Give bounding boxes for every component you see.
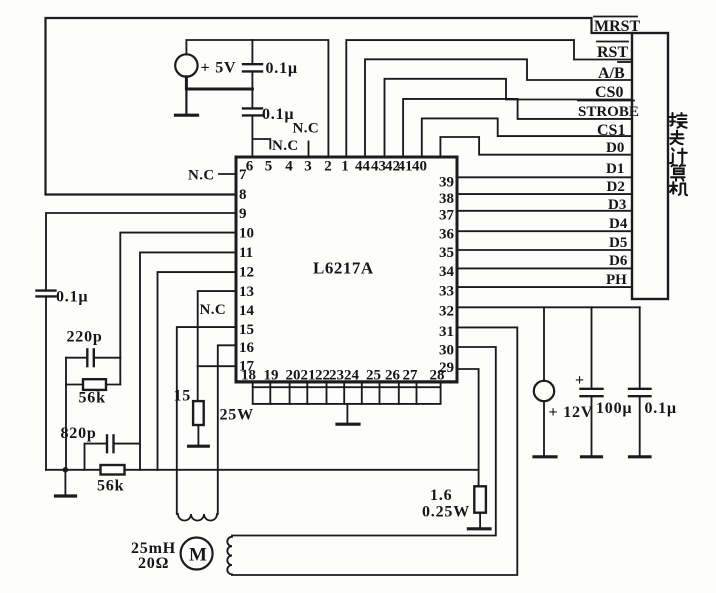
ground below 0.1u right: [630, 455, 651, 458]
U1 pin number 43: [371, 159, 386, 175]
power source +5V: [175, 54, 236, 76]
U1 pin number 4: [285, 159, 293, 175]
svg-text:24: 24: [344, 368, 360, 384]
ground below U1 bottom strip: [337, 404, 359, 424]
svg-text:820p: 820p: [61, 425, 97, 442]
svg-text:D0: D0: [606, 140, 624, 156]
inductor motor winding 1: [178, 514, 217, 521]
wire D1 net: pin 39: [458, 176, 632, 178]
U1 pin number 19: [264, 368, 279, 384]
label STROBE: [578, 101, 639, 121]
label N.C pin 14: [200, 302, 227, 318]
svg-text:D1: D1: [606, 161, 624, 177]
wire D0 net: pin 40: [440, 137, 632, 157]
ground below +12V: [534, 401, 556, 457]
svg-text:D4: D4: [609, 216, 628, 232]
svg-text:23: 23: [329, 368, 344, 384]
U1 pin number 40: [412, 159, 427, 175]
label PH: [606, 272, 627, 288]
wire pin 29 net to 1.6 ohm: [458, 369, 479, 486]
ground below 15 ohm: [189, 425, 209, 446]
label N.C pin 7: [188, 168, 236, 184]
U1 pin number 12: [239, 265, 254, 281]
U1 pin number 2: [324, 159, 332, 175]
label N.C pin 5: [272, 138, 299, 154]
svg-text:43: 43: [371, 159, 386, 175]
U1 pin number 21: [301, 368, 316, 384]
svg-text:15: 15: [174, 388, 192, 405]
label A/B: [598, 62, 630, 82]
capacitor 0.1u C1: [243, 40, 298, 89]
svg-text:41: 41: [398, 159, 413, 175]
svg-text:8: 8: [239, 187, 247, 203]
svg-text:STROBE: STROBE: [578, 104, 639, 120]
svg-text:20Ω: 20Ω: [138, 555, 169, 572]
svg-text:56k: 56k: [97, 478, 124, 495]
svg-text:1.6: 1.6: [430, 487, 452, 504]
wire A/B net: pin 44: [365, 59, 632, 157]
label CS1: [597, 122, 625, 139]
wire pin 9 net: [46, 213, 236, 290]
connector box to computer: [632, 33, 668, 299]
svg-text:11: 11: [239, 245, 253, 261]
svg-text:14: 14: [239, 303, 255, 319]
svg-text:L6217A: L6217A: [313, 259, 374, 278]
IC U1 L6217A body: [236, 157, 457, 382]
wire +5V return to C1/C2 node: [186, 77, 252, 89]
svg-text:22: 22: [315, 368, 330, 384]
capacitor 0.1u C2: [243, 89, 294, 157]
motor M: [181, 538, 213, 570]
wire D4 net: pin 36: [458, 230, 632, 232]
wire pin 17 net: [198, 365, 236, 367]
U1 pin number 39: [439, 175, 454, 191]
U1 pin number 24: [344, 368, 360, 384]
svg-text:RST: RST: [597, 44, 628, 61]
label 25mH 20 ohm: [131, 540, 176, 572]
svg-text:220p: 220p: [67, 329, 103, 346]
ground below 100u: [582, 455, 602, 458]
wire pin 16 net to motor winding 1 right: [218, 345, 236, 514]
wire pin 15 net to motor winding 1 left: [177, 327, 236, 514]
U1 pin number 23: [329, 368, 344, 384]
U1 pin number 32: [439, 304, 454, 320]
capacitor 220p: [66, 329, 120, 367]
svg-text:18: 18: [241, 368, 256, 384]
svg-text:20: 20: [286, 368, 301, 384]
svg-text:31: 31: [439, 324, 454, 340]
svg-text:33: 33: [439, 284, 454, 300]
ground below 1.6 ohm: [468, 513, 490, 529]
svg-text:44: 44: [355, 159, 371, 175]
U1 pin number 14: [239, 303, 255, 319]
svg-text:PH: PH: [606, 272, 627, 288]
svg-text:+ 5V: + 5V: [201, 60, 237, 77]
svg-text:40: 40: [412, 159, 427, 175]
U1 pin number 28: [430, 368, 445, 384]
label D3: [608, 197, 626, 213]
svg-text:0.25W: 0.25W: [422, 504, 470, 521]
svg-text:7: 7: [239, 167, 247, 183]
capacitor 0.1u C3 left: [37, 289, 89, 470]
U1 pin number 37: [439, 208, 455, 224]
svg-text:13: 13: [239, 284, 254, 300]
U1 pin number 41: [398, 159, 413, 175]
svg-text:D2: D2: [607, 179, 625, 195]
inductor motor winding 2: [227, 537, 232, 575]
U1 pin number 6: [246, 159, 254, 175]
label D5: [609, 235, 627, 251]
svg-text:0.1µ: 0.1µ: [262, 106, 294, 123]
ground rail at bottom left: [46, 469, 479, 471]
U1 pin number 3: [304, 159, 312, 175]
wire CS1 net: pin 41: [422, 118, 632, 157]
U1 pin number 42: [385, 159, 400, 175]
U1 pin number 17: [239, 359, 255, 375]
wire pin 12 net: [158, 272, 237, 470]
svg-text:6: 6: [246, 159, 254, 175]
svg-text:39: 39: [439, 175, 454, 191]
U1 pin number 30: [439, 343, 454, 359]
wire N.C stub pin 5: [253, 139, 270, 149]
label MRST: [594, 17, 641, 36]
wire D6 net: pin 34: [458, 267, 632, 269]
U1 pin number 26: [385, 368, 401, 384]
svg-text:N.C: N.C: [272, 138, 299, 154]
resistor 1.6 ohm 0.25W: [422, 486, 486, 520]
svg-text:2: 2: [324, 159, 332, 175]
U1 pin number 35: [439, 245, 454, 261]
svg-text:0.1µ: 0.1µ: [266, 60, 298, 77]
svg-text:+: +: [575, 372, 585, 389]
resistor 15 ohm 25W: [174, 388, 254, 426]
svg-text:N.C: N.C: [200, 302, 227, 318]
svg-text:+ 12V: + 12V: [549, 404, 594, 421]
U1 pin number 25: [366, 368, 381, 384]
wire pin 11 net: [140, 252, 236, 469]
power source +12V: [534, 307, 593, 421]
svg-text:36: 36: [439, 227, 455, 243]
U1 pin number 38: [439, 191, 454, 207]
svg-text:D3: D3: [608, 197, 626, 213]
svg-text:3: 3: [304, 159, 312, 175]
wire STROBE net: pin 42: [403, 99, 632, 157]
wire D2 net: pin 38: [458, 193, 632, 195]
junction node dot: [63, 467, 69, 473]
U1 pin number 1: [341, 159, 349, 175]
wire pin 10 net: [120, 233, 236, 385]
U1 pin number 10: [239, 226, 254, 242]
U1 pin number 15: [239, 322, 254, 338]
capacitor 0.1u right: [629, 307, 677, 455]
U1 pin number 7: [239, 167, 247, 183]
svg-text:5: 5: [265, 159, 273, 175]
label D4: [609, 216, 628, 232]
U1 pin number 16: [239, 340, 255, 356]
U1 pin number 11: [239, 245, 253, 261]
svg-text:30: 30: [439, 343, 454, 359]
wire pin 3 stub: [308, 142, 310, 158]
U1 pin number 33: [439, 284, 454, 300]
wire pin 31 net to motor winding 2 bottom: [232, 327, 517, 575]
wire D5 net: pin 35: [458, 249, 632, 251]
svg-text:10: 10: [239, 226, 254, 242]
wire pin 30 net to motor winding 2 top: [232, 347, 496, 536]
svg-text:0.1µ: 0.1µ: [56, 289, 88, 306]
U1 pin number 29: [439, 360, 454, 376]
wire CS0 net: pin 43: [385, 79, 633, 157]
wire RST net: pin 1: [346, 40, 632, 157]
svg-text:CS0: CS0: [595, 84, 623, 101]
svg-text:D5: D5: [609, 235, 627, 251]
wire 220p/56k left node down to ground rail: [65, 358, 67, 470]
svg-text:D6: D6: [609, 253, 628, 269]
label CS0: [595, 84, 623, 101]
U1 pin number 8: [239, 187, 247, 203]
capacitor 100u electrolytic: [575, 307, 632, 455]
wire PH net: pin 33: [458, 286, 632, 288]
U1 pin number 44: [355, 159, 371, 175]
U1 pin number 22: [315, 368, 330, 384]
U1 pin number 31: [439, 324, 454, 340]
ground below junction: [56, 470, 76, 496]
svg-text:32: 32: [439, 304, 454, 320]
svg-text:4: 4: [285, 159, 293, 175]
svg-text:1: 1: [341, 159, 349, 175]
U1 pin number 36: [439, 227, 455, 243]
svg-text:9: 9: [239, 206, 247, 222]
wire MRST net: top rail, left border, pin 8: [46, 18, 633, 195]
U1 bottom pin strip: [253, 382, 441, 404]
U1 pin number 18: [241, 368, 256, 384]
resistor 56k upper: [66, 379, 120, 406]
svg-text:100µ: 100µ: [596, 400, 632, 417]
U1 pin number 5: [265, 159, 273, 175]
svg-text:N.C: N.C: [293, 121, 320, 137]
U1 pin number 27: [403, 368, 419, 384]
svg-text:15: 15: [239, 322, 254, 338]
U1 pin number 20: [286, 368, 301, 384]
U1 pin number 13: [239, 284, 254, 300]
label D6: [609, 253, 628, 269]
svg-text:16: 16: [239, 340, 255, 356]
svg-text:34: 34: [439, 264, 455, 280]
wire D3 net: pin 37: [458, 210, 632, 212]
svg-text:M: M: [189, 545, 207, 566]
wire pin 13 net to 15 ohm resistor: [198, 291, 236, 401]
U1 pin number 34: [439, 264, 455, 280]
svg-text:37: 37: [439, 208, 455, 224]
U1 pin number 9: [239, 206, 247, 222]
label N.C pin 4: [293, 121, 320, 137]
svg-text:0.1µ: 0.1µ: [645, 400, 677, 417]
label D0: [606, 140, 624, 156]
svg-text:28: 28: [430, 368, 445, 384]
label RST: [597, 42, 628, 62]
label 接去计算机 (to computer): [670, 113, 687, 195]
svg-text:25W: 25W: [220, 407, 254, 424]
svg-text:CS1: CS1: [597, 122, 625, 139]
svg-text:12: 12: [239, 265, 254, 281]
wire pin 32 +12V rail: [458, 306, 640, 308]
ground below +5V source: [176, 89, 198, 115]
svg-text:56k: 56k: [79, 390, 106, 407]
svg-text:A/B: A/B: [598, 65, 625, 82]
svg-text:N.C: N.C: [188, 168, 215, 184]
capacitor 820p: [61, 425, 141, 470]
svg-text:35: 35: [439, 245, 454, 261]
label D1: [606, 161, 624, 177]
resistor 56k lower: [97, 465, 125, 495]
label D2: [607, 179, 625, 195]
svg-text:38: 38: [439, 191, 454, 207]
wire +5V net: rail and pin 2: [186, 40, 328, 157]
